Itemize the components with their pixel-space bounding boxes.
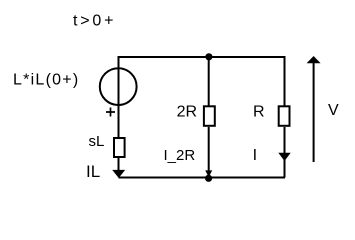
wire bottom rail [119, 177, 286, 179]
arrow voltage V line [313, 62, 315, 162]
svg-text:2R: 2R [177, 103, 197, 120]
node top junction dot [205, 53, 212, 60]
svg-text:V: V [328, 102, 339, 119]
wire top rail [119, 56, 285, 58]
svg-text:I_2R: I_2R [164, 147, 196, 164]
polarity plus of source [106, 108, 115, 117]
wire middle branch upper [208, 57, 210, 106]
wire right branch lower [284, 127, 286, 178]
svg-text:sL: sL [89, 133, 105, 150]
svg-text:t>0+: t>0+ [73, 13, 116, 30]
wire middle branch lower [208, 127, 210, 177]
impedance sL box [114, 138, 125, 157]
arrow current I_2R [205, 170, 212, 177]
wire left branch upper [118, 56, 120, 138]
wire right branch upper [284, 56, 286, 106]
resistor 2R box [204, 106, 215, 126]
svg-text:R: R [253, 104, 265, 121]
svg-text:L*iL(0+): L*iL(0+) [13, 72, 79, 89]
wire left branch lower [118, 158, 120, 177]
arrow voltage V head [307, 56, 321, 63]
svg-text:I: I [253, 147, 257, 164]
source U1 circle [100, 68, 137, 105]
node bottom junction dot [205, 175, 212, 182]
arrow current IL [112, 170, 125, 178]
resistor R box [279, 106, 290, 126]
arrow current I [278, 153, 290, 161]
svg-text:IL: IL [86, 162, 100, 181]
